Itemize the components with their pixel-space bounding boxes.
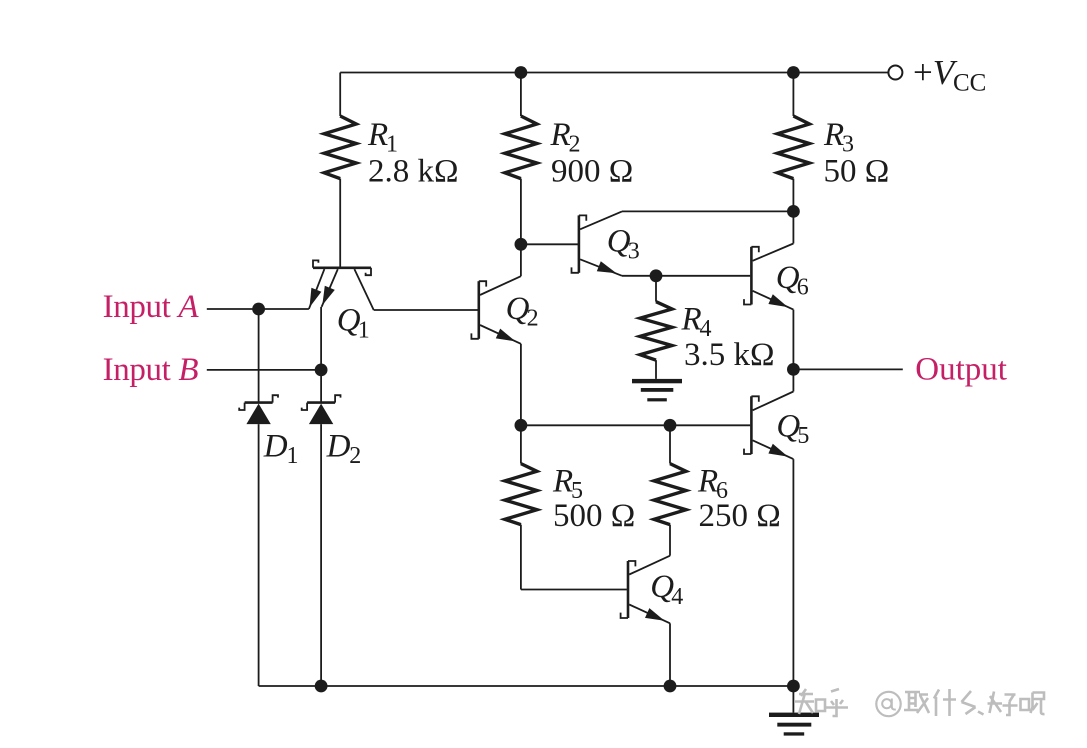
- svg-text:D: D: [263, 428, 288, 464]
- transistor Q2: [471, 276, 521, 344]
- svg-text:3: 3: [628, 238, 640, 264]
- node output junction: [787, 363, 800, 376]
- svg-text:250 Ω: 250 Ω: [699, 498, 781, 534]
- wire Q1 collector to Q2 base: [374, 309, 478, 311]
- transistor Q3: [572, 211, 623, 275]
- transistor Q6: [744, 244, 793, 310]
- label D2: [326, 428, 362, 469]
- wire Q3 emitter to Q6 base: [622, 275, 750, 277]
- node R6 top junction: [664, 419, 677, 432]
- wire Q2 emitter down: [520, 344, 522, 426]
- svg-text:2: 2: [349, 443, 361, 469]
- label Q1: [337, 303, 370, 344]
- svg-text:6: 6: [797, 275, 809, 301]
- node ground rail right junction: [787, 680, 800, 693]
- label R2 value 900 Ohm: [550, 117, 634, 190]
- wire emitter2 down to D2: [320, 307, 322, 403]
- label R6 value 250 Ohm: [697, 463, 781, 534]
- transistor Q5: [744, 392, 793, 460]
- svg-text:2.8 kΩ: 2.8 kΩ: [368, 154, 459, 190]
- terminal +VCC open circle: [888, 66, 902, 80]
- svg-text:3.5 kΩ: 3.5 kΩ: [684, 337, 775, 373]
- diode D1: [239, 395, 278, 424]
- node R3-Q3-Q6 junction: [787, 205, 800, 218]
- svg-text:R: R: [552, 463, 573, 499]
- svg-text:Output: Output: [915, 352, 1007, 388]
- svg-text:R: R: [367, 117, 388, 153]
- node D2 ground junction: [315, 680, 328, 693]
- label Q6: [776, 260, 809, 301]
- svg-text:1: 1: [287, 443, 299, 469]
- svg-text:R: R: [550, 117, 571, 153]
- wire Q5 base rail: [521, 424, 750, 426]
- label Q3: [607, 224, 640, 265]
- wire Q4 emitter down to ground rail: [669, 623, 671, 686]
- svg-text:R: R: [681, 302, 702, 338]
- node top rail R3 junction: [787, 66, 800, 79]
- label +VCC: [913, 53, 986, 97]
- wire Q5 emitter down to ground rail: [792, 459, 794, 686]
- ground under R4: [632, 379, 682, 402]
- node R2-Q2-Q3 junction: [515, 238, 528, 251]
- svg-text:50 Ω: 50 Ω: [824, 154, 890, 190]
- label R5 value 500 Ohm: [552, 463, 635, 534]
- transistor Q4: [621, 556, 670, 624]
- node input A junction: [252, 303, 265, 316]
- svg-text:Input B: Input B: [103, 352, 199, 388]
- node top rail R2 junction: [515, 66, 528, 79]
- label Q5: [776, 408, 809, 449]
- label Q4: [650, 569, 683, 610]
- wire Q2 collector up to R2 node: [520, 244, 522, 276]
- node R4 top junction: [650, 269, 663, 282]
- wire top VCC rail: [340, 72, 888, 74]
- diode D2: [302, 395, 341, 424]
- label Q2: [506, 291, 539, 332]
- svg-text:4: 4: [671, 584, 683, 610]
- resistor R6: [654, 425, 686, 555]
- svg-text:1: 1: [358, 317, 370, 343]
- svg-text:2: 2: [527, 306, 539, 332]
- svg-text:5: 5: [797, 423, 809, 449]
- wire output: [793, 368, 902, 370]
- wire Q5 collector up to output node: [792, 369, 794, 391]
- node R5 top junction: [515, 419, 528, 432]
- resistor R2: [505, 73, 537, 245]
- svg-text:D: D: [326, 428, 351, 464]
- node input B junction: [315, 364, 328, 377]
- svg-text:900 Ω: 900 Ω: [551, 154, 633, 190]
- label Input B: [103, 352, 199, 388]
- wire bottom ground rail: [259, 685, 794, 687]
- wire D2 anode to ground rail: [320, 424, 322, 686]
- wire Q3 base: [521, 243, 579, 245]
- wire Q3 collector to R3 node: [622, 210, 793, 212]
- resistor R4: [640, 276, 672, 379]
- svg-text:CC: CC: [953, 70, 986, 97]
- label R4 value 3.5 kOhm: [681, 302, 775, 373]
- resistor R3: [777, 73, 809, 212]
- resistor R5: [505, 425, 537, 589]
- label R3 value 50 Ohm: [823, 117, 889, 190]
- svg-text:+V: +V: [913, 53, 958, 92]
- ground bottom right: [769, 686, 819, 736]
- watermark zhihu: [795, 689, 1045, 716]
- transistor Q1 multi-emitter: [309, 260, 374, 310]
- svg-text:R: R: [823, 117, 844, 153]
- wire input A down to D1: [258, 309, 260, 403]
- label Output: [915, 352, 1007, 388]
- wire Q4 base: [521, 589, 627, 591]
- wire D1 anode to ground rail: [258, 424, 260, 686]
- label R1 value 2.8 kOhm: [367, 117, 459, 190]
- wire input B: [207, 369, 321, 371]
- svg-text:500 Ω: 500 Ω: [553, 498, 635, 534]
- wire Q6 emitter down to output node: [792, 310, 794, 370]
- wire Q6 collector up: [792, 211, 794, 243]
- svg-text:Input A: Input A: [103, 289, 200, 325]
- resistor R1: [324, 73, 356, 267]
- wire input A: [207, 308, 309, 310]
- svg-text:R: R: [697, 463, 718, 499]
- label D1: [263, 428, 299, 469]
- node Q4 ground junction: [664, 680, 677, 693]
- label Input A: [103, 289, 200, 325]
